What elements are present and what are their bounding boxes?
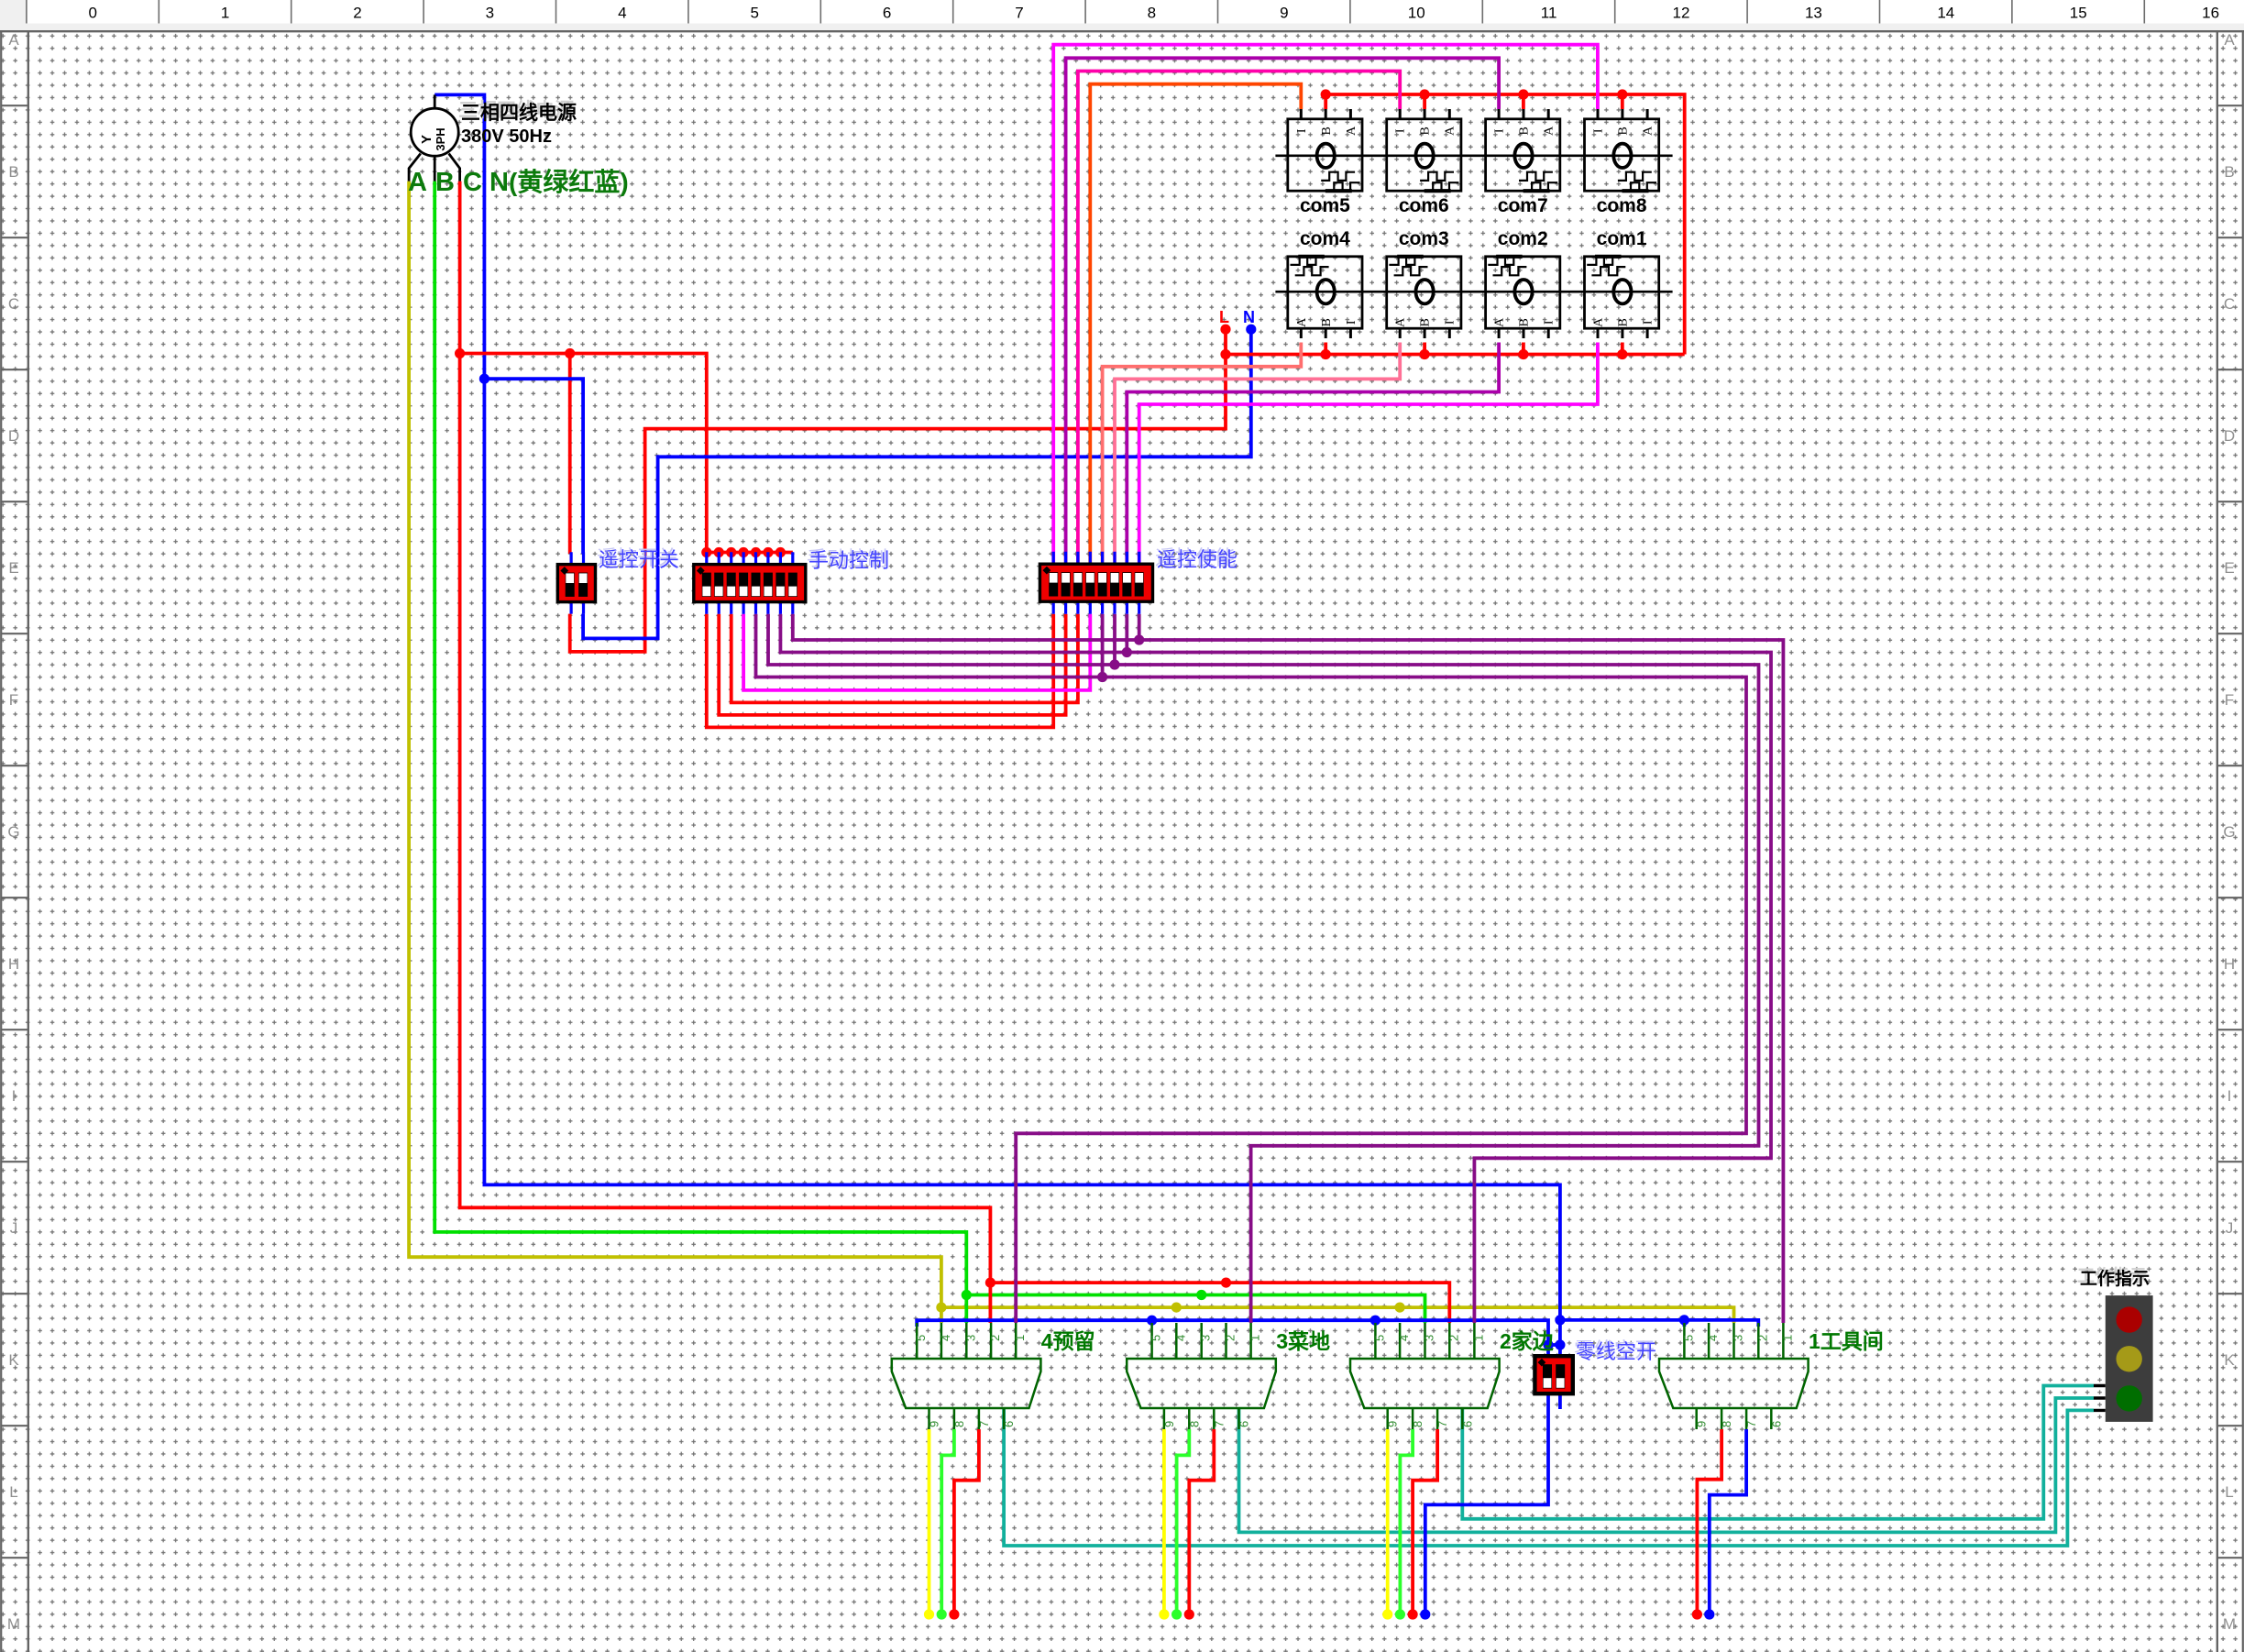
svg-text:0: 0	[88, 5, 96, 22]
wire orange com5 I to DIP3 pin4	[1090, 84, 1301, 565]
wire blue from neutral DIP to bottom	[1425, 1394, 1548, 1612]
wire magenta DIP2 pin4 to DIP3 pin4	[743, 614, 1090, 690]
wire violet com2 A to DIP3 pin7	[1127, 343, 1499, 565]
svg-text:6: 6	[1460, 1421, 1474, 1427]
svg-text:7: 7	[1744, 1421, 1758, 1427]
relay row line top	[1275, 155, 1672, 158]
svg-text:380V 50Hz: 380V 50Hz	[461, 127, 552, 147]
svg-text:5: 5	[750, 5, 758, 22]
wire red stub top B pin	[1423, 94, 1426, 109]
svg-text:E: E	[8, 559, 18, 577]
svg-text:9: 9	[1162, 1421, 1176, 1427]
svg-text:4: 4	[618, 5, 626, 22]
svg-text:J: J	[2226, 1219, 2234, 1237]
dip switch SW4 零线空开	[1534, 1356, 1572, 1393]
connector block 3菜地	[1152, 1323, 1251, 1429]
wire magenta com8 I to DIP3 pin1	[1053, 45, 1598, 565]
wire yellow block pin9 down	[1386, 1429, 1390, 1612]
wire deeppink com6 I to DIP3 pin3	[1078, 72, 1400, 565]
wire red block pin7 down	[1189, 1429, 1214, 1612]
svg-text:Y: Y	[419, 135, 434, 144]
svg-text:A: A	[2224, 31, 2235, 49]
svg-text:com1: com1	[1597, 228, 1647, 249]
svg-text:7: 7	[1212, 1421, 1226, 1427]
dip switch SW3 遥控使能 pin stubs	[1053, 552, 1139, 614]
svg-text:2: 2	[1755, 1335, 1769, 1341]
svg-text:A: A	[408, 168, 427, 197]
svg-text:4: 4	[1397, 1335, 1411, 1341]
svg-text:D: D	[8, 427, 19, 445]
svg-text:8: 8	[1411, 1421, 1424, 1427]
wire yellow block pin9 down	[1162, 1429, 1166, 1612]
svg-text:4预留: 4预留	[1041, 1329, 1095, 1353]
wire bus red to blocks	[990, 1283, 1449, 1323]
svg-text:K: K	[2224, 1351, 2235, 1369]
relay module com2	[1486, 257, 1560, 338]
connector block 1工具间	[1684, 1323, 1783, 1429]
wire neutral blue loop	[434, 94, 1560, 1356]
node L	[1220, 325, 1230, 335]
wire salmon com4 A to DIP3 pin5	[1103, 343, 1302, 565]
wire red stub bottom B pin	[1324, 343, 1327, 355]
wire red stub top B pin	[1522, 94, 1525, 109]
svg-text:6: 6	[1002, 1421, 1016, 1427]
wire purple bus3 DIP2 pin6 to block3 pin1	[768, 614, 1759, 1323]
svg-text:3菜地: 3菜地	[1276, 1329, 1330, 1353]
junction dots blue	[479, 374, 489, 384]
svg-text:com7: com7	[1498, 195, 1548, 216]
wire green block pin8 down	[1400, 1429, 1413, 1612]
svg-text:H: H	[8, 955, 19, 973]
svg-text:12: 12	[1673, 5, 1690, 22]
wire red drop DIP1 pin1	[568, 354, 572, 555]
svg-text:1: 1	[221, 5, 229, 22]
wire red DIP2 pin3 to DIP3 pin3	[731, 614, 1078, 703]
svg-text:C: C	[8, 295, 19, 313]
svg-text:遥控使能: 遥控使能	[1157, 548, 1237, 571]
svg-text:5: 5	[1681, 1335, 1695, 1341]
svg-text:3: 3	[1732, 1335, 1745, 1341]
wire phase-C red	[460, 182, 991, 1323]
junction dots yellow bus	[936, 1303, 946, 1313]
svg-text:7: 7	[1015, 5, 1023, 22]
svg-text:I: I	[12, 1087, 16, 1105]
svg-text:9: 9	[1386, 1421, 1400, 1427]
svg-text:6: 6	[1769, 1421, 1783, 1427]
svg-text:N: N	[1243, 308, 1255, 326]
wire bus yellow to blocks	[941, 1307, 1734, 1323]
svg-text:(黄绿红蓝): (黄绿红蓝)	[509, 167, 629, 196]
right ruler	[2216, 31, 2218, 1652]
relay module com7	[1486, 109, 1560, 191]
svg-text:1: 1	[1471, 1335, 1485, 1341]
svg-text:遥控开关: 遥控开关	[599, 548, 679, 571]
svg-text:2: 2	[1224, 1335, 1237, 1341]
wire purple DIP3 pin8 tap	[1138, 614, 1141, 640]
svg-text:9: 9	[1280, 5, 1288, 22]
wire green block pin8 down	[941, 1429, 954, 1612]
wire phase-A yellow	[409, 182, 941, 1323]
svg-text:3: 3	[1423, 1335, 1436, 1341]
wire blue branch to DIP1 pin2	[484, 379, 583, 554]
svg-text:工作指示: 工作指示	[2080, 1268, 2150, 1289]
wire purple bus2 DIP2 pin7 to block2 pin1	[780, 614, 1771, 1323]
wire red branch to DIP switches	[460, 354, 707, 553]
svg-text:8: 8	[1720, 1421, 1733, 1427]
svg-text:16: 16	[2202, 5, 2219, 22]
dip switch SW2 手动控制 pin stubs	[707, 552, 793, 614]
svg-text:J: J	[10, 1219, 18, 1237]
svg-text:D: D	[2224, 427, 2235, 445]
traffic light 工作指示	[2094, 1386, 2106, 1411]
svg-text:6: 6	[883, 5, 891, 22]
wire bus green to blocks	[966, 1295, 1424, 1324]
junction dots green bus	[962, 1290, 972, 1300]
svg-text:I: I	[2227, 1087, 2232, 1105]
svg-text:5: 5	[1372, 1335, 1386, 1341]
svg-text:5: 5	[1149, 1335, 1163, 1341]
wire phase-B green	[434, 182, 966, 1323]
wire cyan light pin2 to block3 pin6	[1239, 1398, 2095, 1532]
svg-text:2: 2	[1446, 1335, 1460, 1341]
wire blue stub neutral DIP right pin	[1558, 1394, 1562, 1410]
wire blue block1 pin7 down	[1710, 1429, 1746, 1612]
wire red stub bottom B pin	[1621, 343, 1624, 355]
svg-text:com2: com2	[1498, 228, 1548, 249]
svg-text:com5: com5	[1300, 195, 1350, 216]
top ruler	[0, 0, 2244, 24]
svg-text:3: 3	[963, 1335, 977, 1341]
svg-text:G: G	[2223, 823, 2235, 841]
svg-text:3: 3	[1199, 1335, 1213, 1341]
dip switch SW1 遥控开关	[557, 565, 595, 602]
svg-text:1工具间: 1工具间	[1809, 1329, 1884, 1353]
svg-text:4: 4	[1173, 1335, 1187, 1341]
svg-text:8: 8	[1148, 5, 1156, 22]
svg-text:L: L	[9, 1483, 17, 1501]
wire pink com3 A to DIP3 pin6	[1115, 343, 1400, 565]
wire purple DIP3 pin6 tap	[1113, 614, 1116, 665]
svg-text:M: M	[7, 1615, 20, 1633]
relay module com4	[1288, 257, 1362, 338]
svg-text:E: E	[2224, 559, 2234, 577]
svg-text:F: F	[9, 691, 18, 709]
wire red block pin7 down	[1413, 1429, 1437, 1612]
wire magenta com1 A to DIP3 pin8	[1139, 343, 1598, 565]
relay row line bottom	[1275, 291, 1672, 293]
svg-text:9: 9	[928, 1421, 941, 1427]
svg-text:4: 4	[939, 1335, 952, 1341]
junction dots red	[455, 348, 465, 358]
svg-text:15: 15	[2070, 5, 2087, 22]
wire red top bus com5-com8	[1325, 94, 1685, 355]
svg-text:L: L	[1219, 308, 1229, 326]
power source 3PH	[434, 94, 436, 108]
wire cyan light pin1 to block2 pin6	[1462, 1386, 2094, 1519]
wire red block1 pin8 down	[1697, 1429, 1721, 1612]
svg-text:3PH: 3PH	[434, 127, 447, 150]
wire green block pin8 down	[1177, 1429, 1190, 1612]
svg-text:11: 11	[1541, 5, 1557, 22]
svg-text:5: 5	[914, 1335, 928, 1341]
svg-text:14: 14	[1937, 5, 1954, 22]
wire red stub bottom B pin	[1423, 343, 1426, 355]
svg-text:N: N	[489, 168, 509, 197]
wire red stub top B pin	[1621, 94, 1624, 109]
relay module com6	[1387, 109, 1461, 191]
svg-text:com6: com6	[1399, 195, 1449, 216]
node N	[1246, 325, 1256, 335]
wire blue tap block4 pin5	[1683, 1320, 1687, 1327]
wire purple bus4 DIP2 pin5 to block4 pin1	[756, 614, 1747, 1323]
svg-text:2: 2	[988, 1335, 1002, 1341]
svg-text:零线空开: 零线空开	[1576, 1340, 1656, 1363]
relay module com1	[1585, 257, 1659, 338]
svg-text:8: 8	[1187, 1421, 1201, 1427]
wire red stub bottom B pin	[1522, 343, 1525, 355]
junction dots DIP2 bus	[701, 547, 711, 557]
left ruler	[0, 31, 2, 1652]
relay module com8	[1585, 109, 1659, 191]
svg-text:10: 10	[1408, 5, 1425, 22]
svg-text:com8: com8	[1597, 195, 1647, 216]
wire red DIP2 pin2 to DIP3 pin2	[719, 614, 1065, 715]
svg-text:8: 8	[952, 1421, 966, 1427]
svg-text:9: 9	[1695, 1421, 1709, 1427]
wire violet com7 I to DIP3 pin2	[1066, 58, 1500, 564]
wire red block pin7 down	[954, 1429, 979, 1612]
svg-text:com4: com4	[1300, 228, 1350, 249]
svg-text:1: 1	[1013, 1335, 1027, 1341]
svg-text:B: B	[2224, 163, 2234, 181]
dip switch SW1 遥控开关 pin stubs	[571, 552, 583, 613]
svg-text:H: H	[2224, 955, 2235, 973]
wire purple DIP3 pin7 tap	[1125, 614, 1128, 653]
wire N blue line	[583, 329, 1251, 638]
wire red bus above DIP2	[707, 551, 793, 555]
wire red DIP2 pin1 to DIP3 pin1	[707, 614, 1053, 728]
svg-text:G: G	[7, 823, 19, 841]
junction dots purple buses	[1134, 634, 1144, 644]
dip switch SW3 遥控使能	[1039, 564, 1152, 601]
svg-text:B: B	[435, 168, 455, 197]
svg-text:C: C	[463, 168, 482, 197]
relay module com5	[1288, 109, 1362, 191]
svg-text:1: 1	[1248, 1335, 1262, 1341]
svg-text:7: 7	[977, 1421, 991, 1427]
svg-text:A: A	[8, 31, 19, 49]
connector block 2家边	[1375, 1323, 1474, 1429]
wire L red line	[570, 329, 1226, 652]
svg-text:手动控制: 手动控制	[808, 549, 889, 572]
svg-text:2家边: 2家边	[1500, 1329, 1555, 1353]
connector block 4预留	[917, 1323, 1016, 1429]
svg-text:2: 2	[353, 5, 361, 22]
wire yellow block pin9 down	[928, 1429, 931, 1612]
wire bus blue right	[1560, 1320, 1758, 1327]
svg-text:com3: com3	[1399, 228, 1449, 249]
dip switch SW2 手动控制	[694, 565, 806, 602]
relay module com3	[1387, 257, 1461, 338]
svg-text:F: F	[2225, 691, 2234, 709]
wire purple bus1 DIP2 pin8 to block1 pin1	[793, 614, 1784, 1323]
wire red bottom bus com4-com1	[1226, 353, 1685, 357]
wire blue bridge at DIP	[1548, 1343, 1560, 1347]
wire purple DIP3 pin5 tap	[1101, 614, 1105, 677]
svg-text:K: K	[8, 1351, 19, 1369]
svg-text:7: 7	[1435, 1421, 1449, 1427]
svg-text:4: 4	[1706, 1335, 1720, 1341]
wire bus blue left	[917, 1320, 1548, 1356]
svg-text:1: 1	[1780, 1335, 1794, 1341]
svg-text:三相四线电源: 三相四线电源	[461, 102, 577, 124]
svg-text:L: L	[2225, 1483, 2233, 1501]
svg-text:M: M	[2223, 1615, 2236, 1633]
svg-text:3: 3	[486, 5, 494, 22]
svg-text:B: B	[8, 163, 18, 181]
svg-text:13: 13	[1805, 5, 1822, 22]
wire cyan light pin3 to block4 pin6	[1004, 1408, 2094, 1546]
svg-text:6: 6	[1237, 1421, 1251, 1427]
svg-text:C: C	[2224, 295, 2235, 313]
